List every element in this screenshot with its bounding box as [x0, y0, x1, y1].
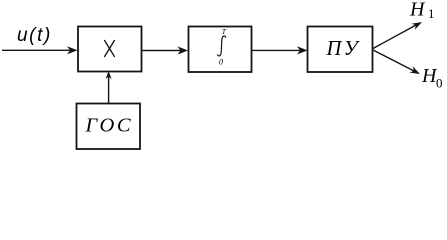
svg-text:ПУ: ПУ — [326, 38, 361, 60]
svg-text:0: 0 — [436, 76, 443, 91]
svg-text:ГОС: ГОС — [85, 115, 134, 137]
svg-text:0: 0 — [219, 58, 223, 67]
svg-text:H: H — [409, 0, 426, 21]
svg-text:u(t): u(t) — [17, 25, 52, 46]
svg-text:1: 1 — [428, 6, 435, 21]
